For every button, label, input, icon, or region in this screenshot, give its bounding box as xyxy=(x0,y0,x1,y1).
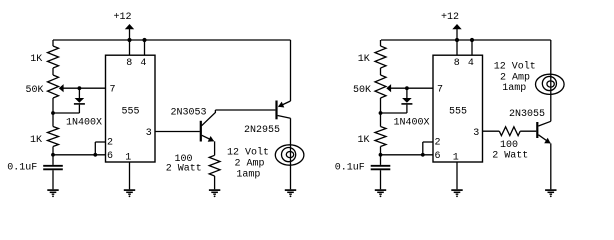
svg-text:50K: 50K xyxy=(25,85,43,96)
svg-text:8: 8 xyxy=(126,58,132,69)
svg-text:555: 555 xyxy=(449,107,467,118)
svg-text:2N2955: 2N2955 xyxy=(244,125,280,136)
svg-text:+12: +12 xyxy=(441,12,459,23)
svg-text:2: 2 xyxy=(434,138,440,149)
svg-text:1amp: 1amp xyxy=(236,170,260,181)
svg-text:1amp: 1amp xyxy=(502,83,526,94)
svg-text:2N3055: 2N3055 xyxy=(509,109,545,120)
svg-text:8: 8 xyxy=(454,58,460,69)
svg-text:1N400X: 1N400X xyxy=(394,118,430,129)
svg-text:0.1uF: 0.1uF xyxy=(7,163,37,174)
svg-text:+12: +12 xyxy=(113,12,131,23)
svg-text:100: 100 xyxy=(500,140,518,151)
svg-text:3: 3 xyxy=(473,128,479,139)
svg-text:6: 6 xyxy=(107,151,113,162)
svg-text:1K: 1K xyxy=(30,135,42,146)
svg-text:2 Watt: 2 Watt xyxy=(166,163,202,174)
svg-text:4: 4 xyxy=(468,58,474,69)
svg-text:555: 555 xyxy=(121,107,139,118)
svg-text:1: 1 xyxy=(125,153,131,164)
svg-text:7: 7 xyxy=(437,84,443,95)
svg-text:3: 3 xyxy=(146,128,152,139)
svg-text:2 Amp: 2 Amp xyxy=(234,159,264,170)
svg-text:6: 6 xyxy=(434,151,440,162)
svg-text:1K: 1K xyxy=(358,54,370,65)
svg-text:2 Watt: 2 Watt xyxy=(492,151,528,162)
svg-text:1K: 1K xyxy=(357,135,369,146)
svg-text:4: 4 xyxy=(140,58,146,69)
svg-text:12 Volt: 12 Volt xyxy=(227,147,269,159)
svg-text:50K: 50K xyxy=(353,85,371,96)
svg-text:1N400X: 1N400X xyxy=(66,118,102,129)
svg-text:1K: 1K xyxy=(30,54,42,65)
svg-text:12 Volt: 12 Volt xyxy=(494,61,536,73)
svg-text:7: 7 xyxy=(109,84,115,95)
svg-text:1: 1 xyxy=(453,153,459,164)
svg-text:2N3053: 2N3053 xyxy=(171,108,207,119)
svg-text:2: 2 xyxy=(107,138,113,149)
svg-text:0.1uF: 0.1uF xyxy=(335,163,365,174)
